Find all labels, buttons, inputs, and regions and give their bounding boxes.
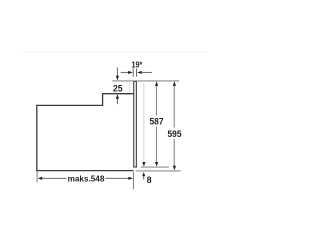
dimension maks.548 (42, 177, 66, 179)
front frame strip (134, 81, 137, 167)
maks.548 extension line right (132, 172, 134, 190)
maks.548 extension line left (36, 171, 38, 182)
svg-text:595: 595 (168, 129, 183, 140)
svg-text:maks.548: maks.548 (68, 173, 105, 183)
top reference line (frame top extended) (112, 80, 179, 82)
dimension line 8 upper (frame height line) (143, 83, 145, 162)
frame bottom extension line (141, 166, 169, 168)
faint guide line top (22, 51, 208, 53)
svg-text:8: 8 (147, 175, 152, 185)
oven body outline (37, 94, 134, 171)
svg-text:25: 25 (113, 83, 123, 93)
dimension 19* arrows and ticks (121, 68, 152, 76)
dimension 587 line (155, 86, 157, 116)
faint extension tick near frame (129, 82, 131, 93)
dimension 25 arrows (116, 67, 118, 76)
svg-text:19*: 19* (131, 60, 142, 70)
dimension 595 line (173, 86, 175, 128)
dimension 8 lower arrow (142, 172, 145, 176)
svg-text:587: 587 (150, 117, 164, 128)
body bottom extension line (136, 170, 181, 172)
